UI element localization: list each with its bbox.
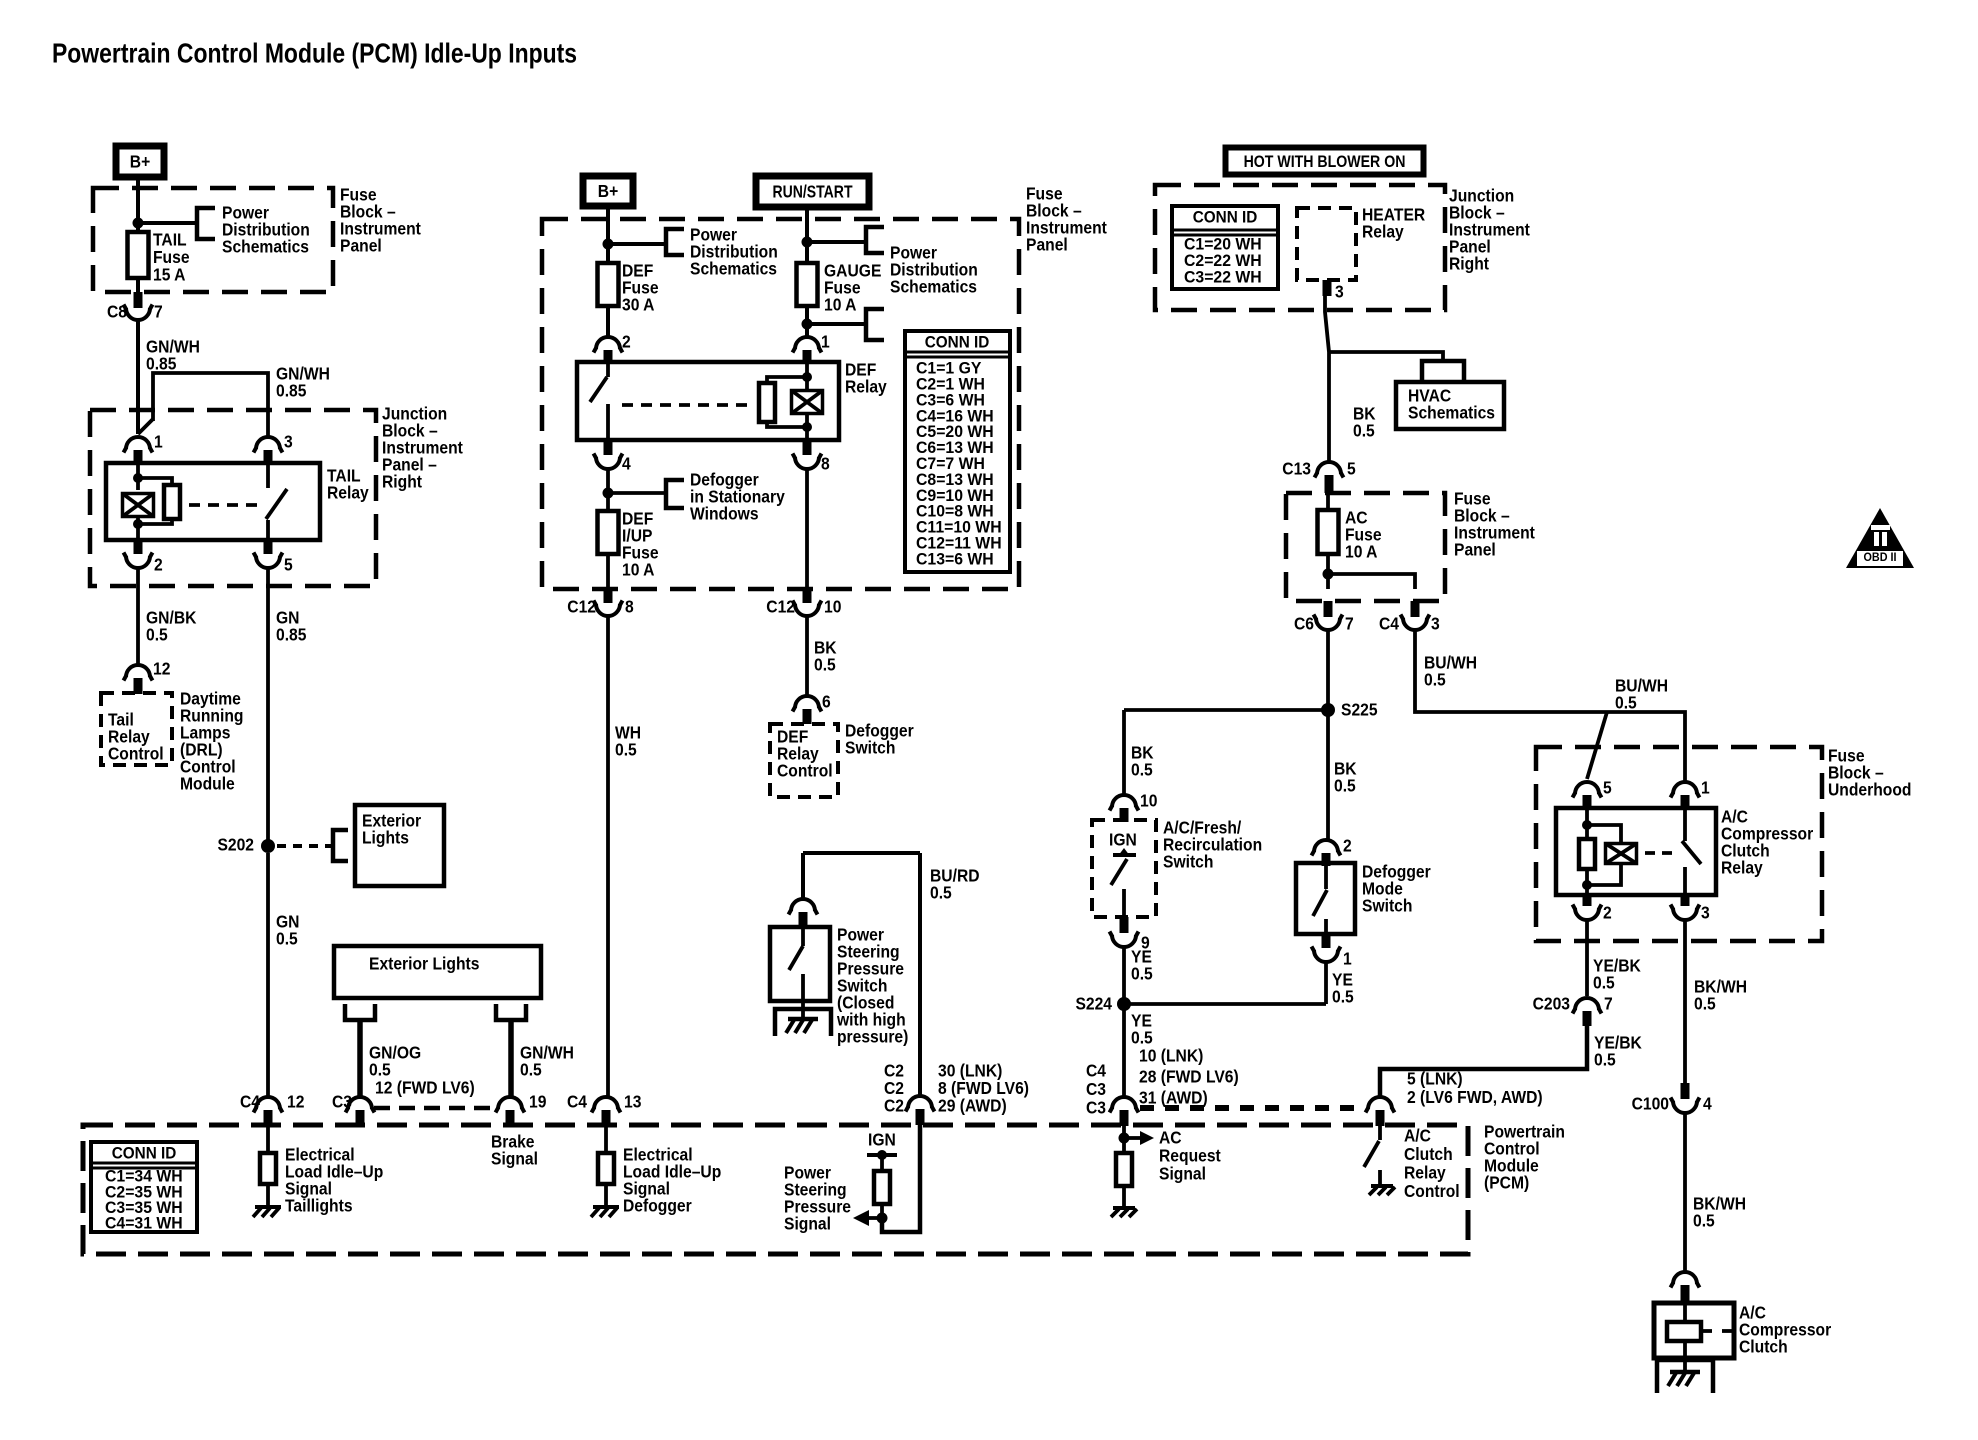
svg-text:0.5: 0.5 [1332,986,1354,1006]
svg-text:Defogger: Defogger [623,1195,692,1215]
svg-text:0.5: 0.5 [1594,1049,1616,1069]
svg-text:B+: B+ [130,152,151,172]
svg-text:Switch: Switch [1163,851,1213,871]
svg-text:pressure): pressure) [837,1026,908,1046]
svg-text:IGN: IGN [868,1129,896,1149]
svg-text:CONN ID: CONN ID [925,333,990,352]
svg-text:2: 2 [1603,902,1612,922]
svg-text:0.5: 0.5 [146,624,168,644]
svg-text:8: 8 [821,453,830,473]
svg-text:0.5: 0.5 [276,928,298,948]
svg-text:B+: B+ [598,181,619,201]
svg-text:Powertrain Control Module (PCM: Powertrain Control Module (PCM) Idle-Up … [52,38,577,69]
svg-text:0.5: 0.5 [1694,993,1716,1013]
svg-text:A/C: A/C [1404,1125,1431,1145]
svg-text:13: 13 [624,1091,641,1111]
svg-text:Relay: Relay [1721,857,1763,877]
svg-text:Panel: Panel [1454,539,1496,559]
svg-text:0.85: 0.85 [146,353,176,373]
svg-text:0.5: 0.5 [1131,759,1153,779]
svg-text:C4: C4 [240,1091,261,1111]
svg-text:Windows: Windows [690,503,759,523]
svg-text:12: 12 [153,658,170,678]
svg-text:0.85: 0.85 [276,624,306,644]
svg-text:0.5: 0.5 [1131,963,1153,983]
svg-text:4: 4 [1703,1093,1712,1113]
svg-text:3: 3 [1701,902,1710,922]
svg-text:Signal: Signal [491,1148,538,1168]
svg-text:Lights: Lights [362,827,409,847]
svg-text:0.5: 0.5 [1593,972,1615,992]
svg-text:RUN/START: RUN/START [772,182,853,202]
svg-text:Signal: Signal [1159,1163,1206,1183]
svg-text:0.5: 0.5 [1615,692,1637,712]
svg-text:Right: Right [382,471,422,491]
svg-text:1: 1 [821,331,830,351]
svg-text:CONN ID: CONN ID [1193,208,1258,227]
svg-text:C3=22 WH: C3=22 WH [1184,268,1262,287]
svg-text:7: 7 [1604,993,1613,1013]
svg-text:0.5: 0.5 [1353,420,1375,440]
svg-text:Relay: Relay [327,482,369,502]
svg-text:Right: Right [1449,253,1489,273]
svg-text:3: 3 [284,431,293,451]
svg-text:C3: C3 [1086,1097,1106,1117]
svg-text:8: 8 [625,596,634,616]
svg-text:Relay: Relay [1404,1162,1446,1182]
svg-text:2: 2 [154,554,163,574]
svg-text:12: 12 [287,1091,304,1111]
svg-text:28 (FWD LV6): 28 (FWD LV6) [1139,1066,1239,1086]
svg-text:1: 1 [1701,777,1710,797]
svg-text:C4: C4 [1086,1060,1107,1080]
svg-text:C100: C100 [1632,1093,1669,1113]
svg-text:6: 6 [822,691,831,711]
svg-text:Clutch: Clutch [1404,1144,1453,1164]
svg-text:0.5: 0.5 [1334,775,1356,795]
svg-text:5 (LNK): 5 (LNK) [1407,1068,1463,1088]
svg-text:10: 10 [1140,790,1157,810]
svg-text:C13: C13 [1282,458,1311,478]
svg-text:(PCM): (PCM) [1484,1172,1529,1192]
svg-text:C8: C8 [107,301,127,321]
svg-text:Schematics: Schematics [690,258,777,278]
svg-text:2: 2 [1343,835,1352,855]
svg-text:12 (FWD LV6): 12 (FWD LV6) [375,1077,475,1097]
svg-text:30 A: 30 A [622,294,654,314]
svg-text:Control: Control [1404,1181,1460,1201]
svg-text:S224: S224 [1075,993,1112,1013]
svg-text:2: 2 [622,331,631,351]
svg-text:10 A: 10 A [1345,541,1377,561]
svg-text:29 (AWD): 29 (AWD) [938,1095,1007,1115]
svg-text:5: 5 [284,554,293,574]
svg-text:31 (AWD): 31 (AWD) [1139,1087,1208,1107]
svg-text:4: 4 [622,453,631,473]
svg-text:C4=31 WH: C4=31 WH [105,1214,183,1233]
svg-text:19: 19 [529,1091,546,1111]
svg-text:Clutch: Clutch [1739,1336,1788,1356]
svg-text:7: 7 [154,301,163,321]
svg-text:2 (LV6 FWD, AWD): 2 (LV6 FWD, AWD) [1407,1087,1543,1107]
svg-text:Taillights: Taillights [285,1195,353,1215]
svg-text:Underhood: Underhood [1828,779,1911,799]
svg-text:C12: C12 [766,596,795,616]
svg-text:0.85: 0.85 [276,380,306,400]
svg-text:C4: C4 [1379,613,1400,633]
svg-text:Panel: Panel [1026,234,1068,254]
svg-text:Relay: Relay [1362,221,1404,241]
svg-text:Switch: Switch [1362,895,1412,915]
svg-text:C4: C4 [567,1091,588,1111]
svg-text:7: 7 [1345,613,1354,633]
svg-text:HOT WITH BLOWER ON: HOT WITH BLOWER ON [1244,153,1406,171]
svg-text:10: 10 [824,596,841,616]
svg-text:10 A: 10 A [824,294,856,314]
svg-text:Control: Control [777,760,833,780]
svg-text:C12: C12 [567,596,596,616]
svg-text:C2: C2 [884,1095,904,1115]
svg-text:0.5: 0.5 [615,739,637,759]
svg-text:3: 3 [1431,613,1440,633]
svg-text:C6: C6 [1294,613,1314,633]
svg-text:15 A: 15 A [153,264,185,284]
svg-text:Panel: Panel [340,235,382,255]
svg-text:3: 3 [1335,281,1344,301]
svg-text:CONN ID: CONN ID [112,1144,177,1163]
svg-text:Exterior Lights: Exterior Lights [369,953,479,973]
svg-text:Switch: Switch [845,737,895,757]
svg-text:S202: S202 [217,834,254,854]
svg-text:0.5: 0.5 [520,1059,542,1079]
svg-text:IGN: IGN [1109,829,1137,849]
svg-text:Schematics: Schematics [1408,402,1495,422]
svg-text:0.5: 0.5 [1693,1210,1715,1230]
svg-text:S225: S225 [1341,699,1378,719]
svg-text:0.5: 0.5 [814,654,836,674]
svg-text:OBD II: OBD II [1864,551,1897,564]
svg-text:C3: C3 [1086,1079,1106,1099]
svg-text:Signal: Signal [784,1213,831,1233]
svg-text:C13=6 WH: C13=6 WH [916,550,994,569]
svg-text:0.5: 0.5 [1424,669,1446,689]
svg-text:0.5: 0.5 [930,882,952,902]
svg-text:Control: Control [108,743,164,763]
svg-text:5: 5 [1603,777,1612,797]
svg-text:5: 5 [1347,458,1356,478]
svg-text:Relay: Relay [845,376,887,396]
svg-text:C203: C203 [1533,993,1570,1013]
svg-text:10 A: 10 A [622,559,654,579]
svg-text:Schematics: Schematics [890,276,977,296]
svg-text:10 (LNK): 10 (LNK) [1139,1045,1203,1065]
svg-text:1: 1 [154,431,163,451]
svg-text:Schematics: Schematics [222,236,309,256]
svg-text:Module: Module [180,773,235,793]
svg-text:1: 1 [1343,948,1352,968]
svg-text:C3: C3 [332,1091,352,1111]
